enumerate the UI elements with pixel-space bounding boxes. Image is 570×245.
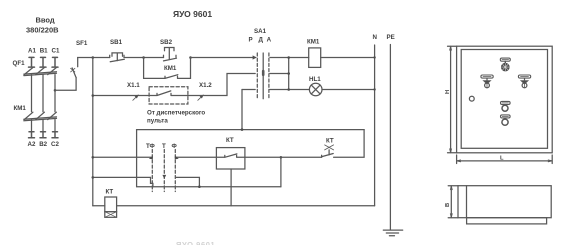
svg-text:С2: С2	[51, 141, 59, 148]
dimension L	[457, 155, 553, 164]
KT box contact	[216, 154, 245, 157]
KT box	[216, 148, 245, 169]
node X1 tap	[92, 94, 95, 97]
SA1 row1 arrow	[253, 55, 257, 59]
KT delay mark	[325, 145, 334, 150]
QF1 pole 2 blade	[36, 68, 45, 75]
svg-text:Х1.1: Х1.1	[127, 82, 140, 89]
svg-text:От диспетчерского: От диспетчерского	[147, 110, 205, 117]
wire auto bus right drop	[334, 130, 365, 158]
HL1 body	[309, 83, 322, 96]
wire SA1 row3 in	[242, 89, 255, 91]
connector X1.2	[199, 82, 212, 89]
wire phase C bottom	[54, 120, 56, 132]
F arrow	[175, 156, 179, 160]
cabinet element1 plate	[501, 101, 511, 104]
wire SA1 row1 out	[270, 57, 309, 59]
SB2 contact	[164, 55, 177, 61]
node jog	[198, 185, 201, 188]
wire phase to TF	[93, 156, 151, 158]
KM1 link bar	[24, 117, 57, 121]
wire SA1 A drop	[241, 90, 243, 130]
wire auto bus	[137, 129, 365, 131]
dimension B	[448, 186, 458, 218]
wire C to SF1	[55, 78, 76, 91]
SA1 position line A	[268, 53, 270, 99]
svg-text:РЕ: РЕ	[387, 34, 395, 41]
wire top rail left	[78, 57, 110, 59]
svg-text:С1: С1	[52, 48, 60, 55]
terminal B1	[40, 57, 46, 67]
node rail tap	[92, 56, 95, 59]
wire F bottom jog	[176, 177, 200, 186]
KM1 pole 2 blade	[36, 112, 45, 119]
svg-text:Х1.2: Х1.2	[199, 82, 212, 89]
connector X1.1	[127, 82, 140, 89]
QF1 trip bar	[24, 72, 57, 76]
X1.1 arrow	[133, 94, 139, 100]
N line	[374, 45, 376, 206]
photo relay terminal TF	[146, 143, 156, 150]
relay contact KT boxed	[226, 137, 234, 144]
cabinet button2 plate	[518, 75, 530, 78]
wire phase B bottom	[42, 120, 44, 132]
node link top	[280, 156, 283, 159]
wire left drop	[92, 58, 94, 206]
node B2	[39, 141, 47, 148]
cabinet bottom view body	[458, 186, 551, 218]
wire phase B mid	[42, 75, 44, 112]
svg-text:Д: Д	[259, 37, 264, 44]
svg-text:L: L	[500, 156, 504, 162]
T column arrow	[162, 175, 166, 179]
svg-text:SB1: SB1	[110, 39, 123, 46]
dimension H	[448, 46, 457, 153]
SA1 position line P	[256, 53, 258, 99]
node N hl1	[373, 88, 375, 90]
wire neutral to TF	[93, 177, 153, 183]
pushbutton SB1	[110, 39, 123, 46]
svg-text:QF1: QF1	[13, 60, 26, 67]
svg-text:В2: В2	[39, 141, 47, 148]
label L	[500, 156, 504, 162]
svg-text:380/220В: 380/220В	[26, 26, 59, 35]
lamp HL1	[309, 76, 321, 83]
QF1 pole 1 blade	[24, 68, 33, 75]
cabinet button1 plate	[481, 75, 493, 78]
terminal A1	[29, 57, 35, 67]
selector switch SA1	[254, 28, 267, 35]
KT timed contact blade	[322, 150, 334, 157]
svg-text:КТ: КТ	[326, 137, 334, 144]
wire link riser	[280, 157, 282, 186]
node A1	[28, 48, 36, 55]
KM1 aux branch	[144, 58, 191, 79]
coil KM1	[307, 39, 320, 46]
svg-text:КМ1: КМ1	[14, 105, 27, 112]
wire phase A bottom	[31, 120, 33, 132]
svg-text:Т: Т	[162, 143, 166, 150]
svg-text:В1: В1	[40, 48, 48, 55]
SF1 blade	[72, 68, 76, 78]
pushbutton SB2	[160, 39, 173, 46]
svg-text:ЯУО 9601: ЯУО 9601	[173, 9, 212, 19]
node auto tap	[241, 128, 244, 131]
wire SA1 row3 out	[270, 89, 309, 91]
SA1 position labels	[249, 37, 272, 44]
cabinet front outer	[457, 46, 553, 153]
svg-text:В: В	[445, 203, 451, 207]
node t tap	[92, 176, 95, 179]
KT coil body	[105, 197, 117, 212]
svg-text:пульта: пульта	[147, 118, 168, 125]
wire KT box out	[245, 156, 322, 158]
PE line	[389, 45, 391, 230]
wire SA1 common riser	[288, 58, 290, 90]
cabinet button1	[483, 78, 490, 88]
QF1 pole 3 blade	[48, 68, 57, 75]
node branch left	[142, 56, 145, 59]
svg-text:КТ: КТ	[106, 189, 114, 196]
svg-text:ТФ: ТФ	[146, 143, 156, 150]
cabinet bottom view base	[467, 218, 547, 224]
svg-text:Ввод: Ввод	[36, 16, 55, 25]
net PE	[387, 34, 395, 41]
ground	[383, 230, 402, 236]
wire phase C mid	[54, 75, 56, 112]
svg-text:Н: Н	[445, 90, 451, 94]
SA1 contact mark	[262, 71, 265, 75]
SA1 shaft	[262, 53, 264, 99]
KM1 coil body	[309, 48, 321, 68]
timed contact KT	[326, 137, 334, 144]
cabinet element2	[502, 119, 508, 125]
svg-text:SF1: SF1	[76, 40, 88, 47]
contact KM1 aux	[164, 65, 177, 72]
cabinet lamp plate	[500, 58, 510, 61]
terminal B2	[40, 132, 46, 138]
svg-text:ЯУО 9601: ЯУО 9601	[176, 240, 215, 245]
node B1	[40, 48, 48, 55]
terminal C2	[52, 132, 58, 138]
wire SA1 row2 out	[270, 73, 289, 75]
wire X1 row	[93, 95, 149, 97]
circuit breaker QF1	[13, 60, 26, 67]
node C2	[51, 141, 59, 148]
cabinet lock	[469, 96, 474, 101]
label B	[445, 203, 451, 207]
remote switch dashed box	[149, 87, 188, 104]
node N km1	[373, 56, 375, 58]
SB2 actuator	[165, 48, 175, 60]
svg-text:КМ1: КМ1	[164, 65, 177, 72]
svg-text:N: N	[373, 34, 378, 41]
wire HL1 to N	[322, 89, 375, 91]
T column	[163, 150, 165, 192]
faint caption	[176, 240, 215, 245]
svg-text:А2: А2	[28, 141, 36, 148]
label Ввод 380/220В	[26, 16, 59, 35]
node A2	[28, 141, 36, 148]
wire F to KT box	[176, 156, 217, 158]
svg-text:SA1: SA1	[254, 28, 267, 35]
wire KT box coil drop	[230, 169, 232, 206]
TF column	[151, 150, 153, 192]
F column	[174, 150, 176, 192]
photo relay terminal T	[162, 143, 166, 150]
SB1 contact	[110, 55, 125, 62]
cabinet lamp	[502, 61, 509, 71]
TF arrow	[149, 156, 153, 160]
cabinet front inner	[461, 50, 547, 149]
svg-text:Ф: Ф	[172, 143, 178, 150]
label remote	[147, 110, 205, 125]
title text	[173, 9, 212, 19]
SB1 actuator	[112, 53, 123, 61]
contactor KM1 main contacts	[14, 105, 27, 112]
breaker SF1	[76, 40, 88, 47]
terminal A2	[29, 132, 35, 138]
SF1 cross mark	[71, 68, 75, 72]
wire bottom rail	[93, 205, 375, 207]
X1.2 arrow	[198, 94, 204, 100]
terminal C1	[52, 57, 58, 67]
svg-text:КТ: КТ	[226, 137, 234, 144]
node C1	[52, 48, 60, 55]
node tf tap	[92, 156, 95, 159]
wire bottom auto link	[153, 186, 281, 188]
cabinet element2 plate	[501, 115, 511, 118]
wire rail to SA1	[191, 57, 256, 59]
svg-text:КМ1: КМ1	[307, 39, 320, 46]
svg-text:А1: А1	[28, 48, 36, 55]
KM1 pole 3 blade	[48, 112, 57, 119]
KT coil base	[105, 212, 117, 218]
wire phase A mid	[31, 75, 33, 112]
svg-text:Р: Р	[249, 37, 253, 44]
node C tap	[54, 89, 57, 92]
svg-text:SB2: SB2	[160, 39, 173, 46]
node sa1 r3	[287, 88, 290, 91]
cabinet button2	[521, 78, 528, 88]
wire KM1 coil to N	[321, 57, 375, 59]
svg-text:А: А	[267, 37, 272, 44]
svg-text:HL1: HL1	[309, 76, 321, 83]
SF1 top stub	[77, 58, 79, 67]
node sa1 r2	[287, 72, 290, 75]
net N	[373, 34, 378, 41]
KM1 pole 1 blade	[24, 112, 33, 119]
wire rail SB1-SB2	[124, 57, 164, 59]
label H	[445, 90, 451, 94]
relay coil KT	[106, 189, 114, 196]
node branch right	[189, 56, 192, 59]
cabinet element1	[502, 105, 508, 111]
wire X1.2 to SA1	[188, 74, 255, 96]
node sa1 r1	[287, 56, 290, 59]
remote switch contact	[149, 91, 188, 96]
photo relay terminal F	[172, 143, 178, 150]
wire auto bus left drop	[137, 130, 153, 187]
